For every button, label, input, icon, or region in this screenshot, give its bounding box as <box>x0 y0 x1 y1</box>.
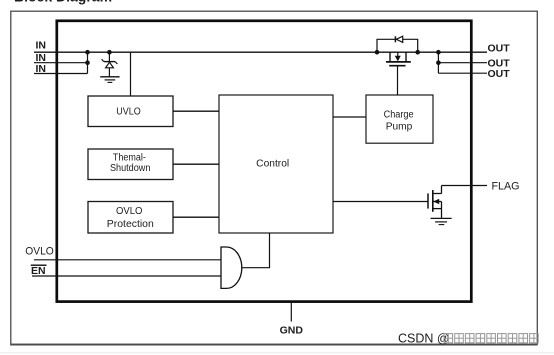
block Charge Pump <box>366 95 433 143</box>
svg-text:Pump: Pump <box>386 122 413 133</box>
junction dot OUT1/tie <box>436 50 441 55</box>
svg-text:IN: IN <box>36 40 47 52</box>
wire AND gate output to Control <box>242 233 270 268</box>
svg-text:OUT: OUT <box>488 68 511 80</box>
wire Control to Charge Pump <box>333 116 366 118</box>
junction dot OUT2/tie <box>436 60 441 65</box>
pin label EN (with overbar) <box>31 265 47 277</box>
AND gate U1 <box>221 247 242 288</box>
ground symbol at Q2 source <box>431 218 452 224</box>
wire IN2 <box>34 62 88 64</box>
svg-text:EN: EN <box>31 265 46 277</box>
svg-text:OVLO: OVLO <box>116 206 143 217</box>
svg-text:Charge: Charge <box>384 109 414 120</box>
block OVLO Protection <box>88 202 173 234</box>
zener diode D1 (input clamp) <box>102 59 118 76</box>
IC boundary box (thick) <box>57 21 472 302</box>
wire OUT3 <box>438 72 487 74</box>
junction dot Q1 source <box>415 50 420 55</box>
wire OVLO Protection to Control <box>173 216 219 218</box>
svg-text:UVLO: UVLO <box>116 107 141 118</box>
wire zener branch down <box>108 52 110 61</box>
block Control <box>219 95 333 233</box>
svg-text:CSDN @: CSDN @ <box>398 332 450 346</box>
wire UVLO to Control <box>173 110 219 112</box>
wire OUT bus tie vertical <box>437 52 439 73</box>
wire IN3 <box>34 73 88 75</box>
wire OVLO input <box>34 259 221 261</box>
wire IN bus tie vertical <box>87 52 89 73</box>
faint page rule at very bottom <box>0 352 554 353</box>
svg-text:Block Diagram: Block Diagram <box>14 0 112 5</box>
wire EN input <box>32 275 221 277</box>
body diode D2 loop over Q1 <box>377 36 418 52</box>
junction dot zener branch <box>107 50 112 55</box>
wire GND pin <box>290 302 292 322</box>
block Themal-Shutdown <box>88 149 173 180</box>
block UVLO <box>88 96 173 127</box>
wire Q2 drain to FLAG pin <box>442 185 488 187</box>
ground symbol at D1 <box>100 77 119 83</box>
svg-text:OUT: OUT <box>488 43 511 55</box>
junction dot IN2/tie <box>85 60 90 65</box>
watermark CSDN <box>398 332 538 346</box>
wire Themal-Shutdown to Control <box>173 163 219 165</box>
wire OUT2 <box>438 62 487 64</box>
svg-text:Protection: Protection <box>107 219 154 230</box>
svg-text:FLAG: FLAG <box>492 180 520 192</box>
svg-text:Shutdown: Shutdown <box>110 163 151 174</box>
svg-text:OVLO: OVLO <box>25 245 54 257</box>
flag transistor Q2 (open-drain NMOS) <box>428 186 442 218</box>
wire main IN rail y=52.2 <box>34 51 487 53</box>
junction dot Q1 drain <box>375 50 380 55</box>
pass transistor Q1 (power MOSFET) <box>386 52 411 65</box>
svg-text:Control: Control <box>256 158 289 169</box>
wire Q1 gate to Charge Pump <box>397 66 399 95</box>
svg-text:GND: GND <box>280 324 304 336</box>
clipped heading text "Block Diagram" at top <box>14 0 112 5</box>
wire Control to Q2 gate <box>333 201 428 203</box>
junction dot IN1/tie <box>85 50 90 55</box>
svg-text:Themal-: Themal- <box>113 153 146 164</box>
wire IN rail to UVLO <box>130 52 132 96</box>
